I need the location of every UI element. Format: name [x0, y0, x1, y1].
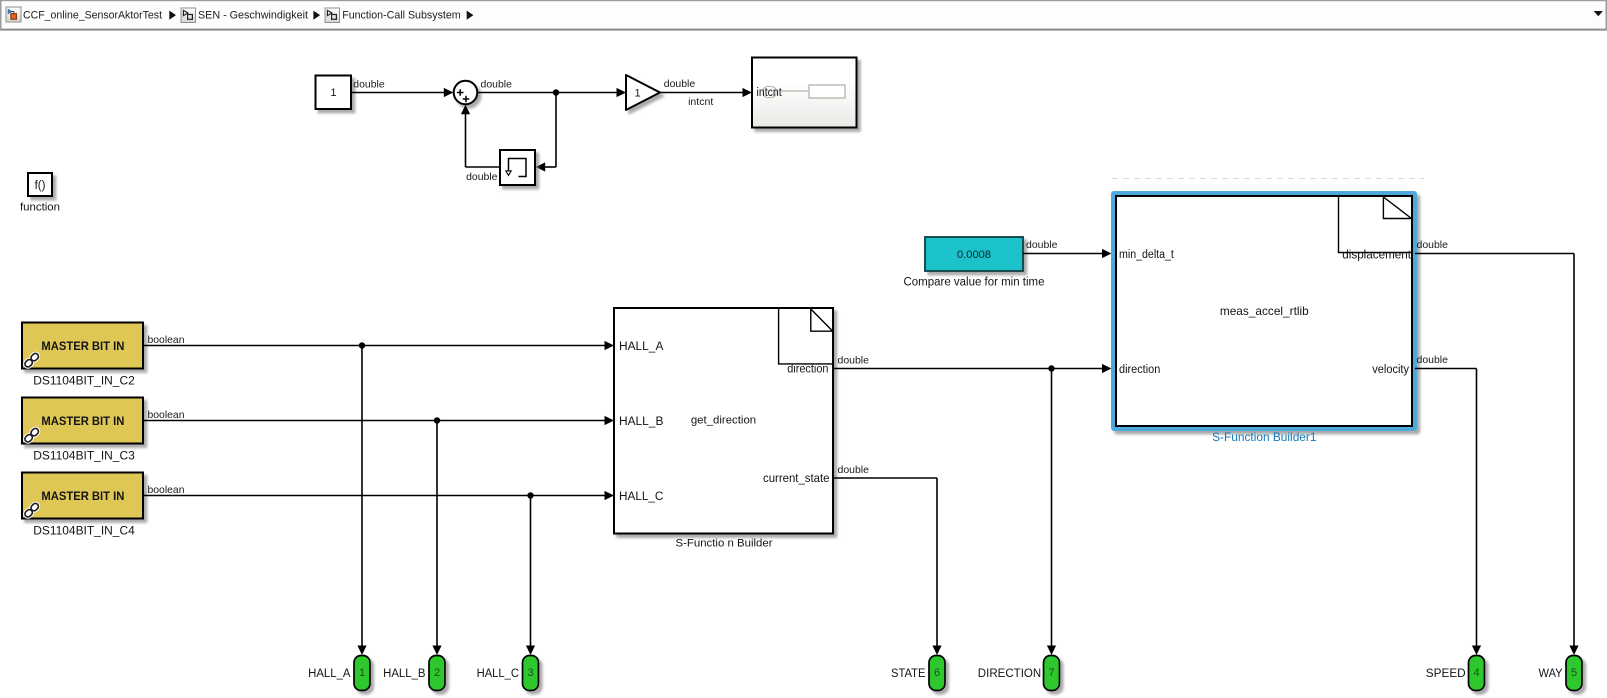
svg-text:boolean: boolean — [148, 334, 185, 346]
wire branch down to DIRECTION outport — [1047, 369, 1056, 656]
wire gain to subsystem — [660, 88, 752, 97]
MASTER BIT IN block DS1104BIT_IN_C2 — [22, 323, 143, 369]
function-call trigger block f() — [28, 173, 52, 196]
svg-text:double: double — [353, 78, 385, 90]
outport 6 (STATE) — [929, 656, 945, 691]
svg-text:double: double — [1417, 354, 1449, 366]
MASTER BIT IN block DS1104BIT_IN_C3 — [22, 398, 143, 444]
svg-text:HALL_A: HALL_A — [308, 668, 351, 680]
svg-text:Function-Call Subsystem: Function-Call Subsystem — [342, 10, 461, 22]
breadcrumb dropdown arrow — [1594, 11, 1603, 16]
svg-text:S-Function Builder1: S-Function Builder1 — [1212, 430, 1317, 444]
svg-text:3: 3 — [527, 667, 533, 679]
breadcrumb separator 2 — [313, 11, 320, 20]
svg-text:boolean: boolean — [148, 409, 185, 421]
svg-text:intcnt: intcnt — [688, 96, 713, 108]
wire MASTER BIT IN C3 to HALL input — [143, 416, 614, 425]
svg-text:6: 6 — [934, 667, 940, 679]
svg-text:2: 2 — [434, 667, 440, 679]
breadcrumb bar — [0, 0, 1607, 31]
svg-text:Compare value for min time: Compare value for min time — [904, 277, 1045, 289]
svg-text:MASTER BIT IN: MASTER BIT IN — [41, 489, 124, 503]
constant block (value 1) — [316, 76, 352, 110]
svg-text:5: 5 — [1571, 667, 1577, 679]
outport 1 (HALL_A) — [354, 656, 370, 691]
wire velocity to SPEED outport — [1415, 369, 1481, 656]
svg-text:intcnt: intcnt — [757, 87, 783, 99]
svg-text:function: function — [20, 202, 60, 214]
svg-text:1: 1 — [359, 667, 365, 679]
svg-text:MASTER BIT IN: MASTER BIT IN — [41, 414, 124, 428]
svg-text:double: double — [838, 354, 870, 366]
svg-text:direction: direction — [787, 364, 828, 376]
breadcrumb subsystem icon 2 — [181, 8, 196, 23]
junction C2 branch — [359, 342, 365, 348]
svg-text:double: double — [1026, 239, 1058, 251]
breadcrumb separator 3 — [467, 11, 474, 20]
wire constant to sum — [351, 88, 453, 97]
junction direction branch — [1048, 365, 1054, 371]
wire branch down to outport — [357, 346, 366, 656]
breadcrumb subsystem icon 3 — [325, 8, 340, 23]
svg-text:4: 4 — [1473, 667, 1479, 679]
sum block — [454, 81, 478, 105]
unit delay (memory) block — [500, 150, 535, 185]
outport 3 (HALL_C) — [523, 656, 539, 691]
gain block (value 1) — [626, 75, 660, 110]
svg-text:meas_accel_rtlib: meas_accel_rtlib — [1220, 304, 1309, 318]
outport 4 (SPEED) — [1469, 656, 1485, 691]
S-function block get_direction — [614, 308, 833, 534]
svg-text:direction: direction — [1119, 364, 1160, 376]
svg-text:double: double — [481, 78, 513, 90]
svg-text:double: double — [838, 464, 870, 476]
outport 5 (WAY) — [1566, 656, 1582, 691]
svg-text:min_delta_t: min_delta_t — [1119, 249, 1175, 261]
svg-text:SEN - Geschwindigkeit: SEN - Geschwindigkeit — [198, 10, 308, 22]
svg-text:DS1104BIT_IN_C2: DS1104BIT_IN_C2 — [33, 374, 135, 388]
svg-text:MASTER BIT IN: MASTER BIT IN — [41, 339, 124, 353]
svg-text:displacement: displacement — [1342, 250, 1412, 262]
svg-text:HALL_C: HALL_C — [619, 491, 663, 503]
breadcrumb separator 1 — [169, 11, 176, 20]
svg-text:WAY: WAY — [1539, 668, 1563, 680]
svg-text:CCF_online_SensorAktorTest: CCF_online_SensorAktorTest — [23, 10, 162, 22]
outport 2 (HALL_B) — [429, 656, 445, 691]
svg-text:double: double — [1417, 239, 1449, 251]
outport 7 (DIRECTION) — [1044, 656, 1060, 691]
faint dashed guide above selected block — [1112, 178, 1424, 180]
wire MASTER BIT IN C2 to HALL input — [143, 341, 614, 350]
wire MASTER BIT IN C4 to HALL input — [143, 491, 614, 500]
svg-text:double: double — [466, 171, 498, 183]
svg-text:current_state: current_state — [763, 473, 830, 485]
svg-text:HALL_A: HALL_A — [619, 341, 664, 353]
svg-text:HALL_B: HALL_B — [619, 416, 664, 428]
svg-text:DIRECTION: DIRECTION — [978, 668, 1041, 680]
svg-text:0.0008: 0.0008 — [957, 249, 991, 261]
breadcrumb model icon — [6, 7, 21, 22]
svg-text:DS1104BIT_IN_C3: DS1104BIT_IN_C3 — [33, 449, 135, 463]
wire current_state to STATE outport — [833, 478, 942, 655]
wire displacement to WAY outport — [1415, 254, 1579, 656]
junction C4 branch — [527, 492, 533, 498]
wire unit delay to sum bottom — [461, 105, 500, 167]
subsystem block intcnt — [752, 58, 857, 128]
wire branch down to outport — [432, 421, 441, 656]
constant block 0.0008 (Compare value for min time) — [925, 237, 1023, 271]
svg-text:HALL_B: HALL_B — [383, 668, 426, 680]
wire direction output to S-Function Builder1 — [833, 364, 1112, 373]
wire 0.0008 to min_delta_t — [1023, 249, 1112, 258]
svg-text:7: 7 — [1048, 667, 1054, 679]
svg-text:SPEED: SPEED — [1426, 668, 1466, 680]
wire sum to gain — [477, 88, 626, 97]
svg-text:velocity: velocity — [1372, 364, 1409, 376]
MASTER BIT IN block DS1104BIT_IN_C4 — [22, 473, 143, 519]
svg-text:STATE: STATE — [891, 668, 926, 680]
junction on sum output — [553, 89, 559, 95]
svg-text:boolean: boolean — [148, 484, 185, 496]
svg-text:1: 1 — [634, 88, 640, 100]
svg-text:HALL_C: HALL_C — [477, 668, 519, 680]
svg-text:S-Functio n Builder: S-Functio n Builder — [676, 537, 773, 549]
wire branch down to outport — [526, 496, 535, 656]
svg-text:1: 1 — [330, 87, 336, 99]
svg-text:f(): f() — [35, 180, 46, 192]
svg-text:DS1104BIT_IN_C4: DS1104BIT_IN_C4 — [33, 524, 135, 538]
selected S-function block meas_accel_rtlib (S-Function Builder1) — [1111, 191, 1417, 431]
svg-text:get_direction: get_direction — [691, 415, 756, 427]
svg-text:double: double — [664, 78, 696, 90]
junction C3 branch — [434, 417, 440, 423]
feedback wire from junction to unit delay — [536, 92, 556, 172]
